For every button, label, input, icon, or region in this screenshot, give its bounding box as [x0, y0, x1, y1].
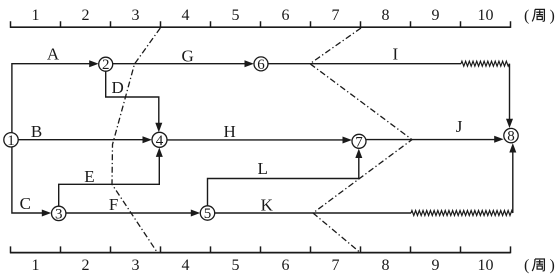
- svg-text:2: 2: [82, 257, 90, 274]
- wire I line node6 right with float wave: [268, 63, 461, 65]
- svg-text:4: 4: [156, 133, 164, 149]
- node 2: [99, 57, 113, 73]
- svg-text:A: A: [47, 44, 60, 63]
- wire E from node3 up over to node4 bottom: [59, 155, 160, 207]
- svg-text:3: 3: [132, 257, 140, 274]
- svg-text:H: H: [223, 122, 235, 141]
- svg-text:L: L: [258, 159, 268, 178]
- svg-text:5: 5: [204, 206, 212, 222]
- svg-text:6: 6: [282, 257, 290, 274]
- arrow F into node5: [191, 210, 200, 217]
- arrow H into node7: [343, 137, 352, 144]
- wire B node1 to node4: [18, 139, 145, 141]
- top ruler ticks: [11, 21, 511, 28]
- wire J node7 to node8: [366, 139, 497, 141]
- svg-text:8: 8: [382, 7, 390, 24]
- node 5: [200, 206, 214, 222]
- node 4: [152, 132, 167, 149]
- svg-text:2: 2: [102, 57, 110, 73]
- top ruler line: [10, 26, 511, 28]
- svg-text:2: 2: [82, 7, 90, 24]
- wire I drop into node 8: [509, 64, 511, 122]
- svg-text:C: C: [20, 194, 31, 213]
- arrow I into node8 top: [506, 119, 513, 128]
- wire K rise into node 8: [512, 150, 514, 213]
- wire G line node2 to node6: [113, 63, 247, 65]
- svg-text:G: G: [182, 47, 194, 66]
- svg-text:(: (: [524, 257, 529, 274]
- node 7: [352, 134, 366, 150]
- svg-text:(: (: [524, 8, 529, 25]
- svg-text:10: 10: [478, 7, 494, 24]
- ruler numbers bottom: [32, 257, 494, 274]
- svg-text:8: 8: [382, 257, 390, 274]
- node 1: [4, 133, 18, 149]
- arrow J into node8: [494, 136, 503, 143]
- svg-text:1: 1: [32, 257, 40, 274]
- arrow C into node3: [42, 210, 51, 217]
- svg-text:): ): [550, 257, 555, 274]
- wire F node3 to node5: [66, 212, 193, 214]
- wire H node4 to node7: [167, 139, 345, 141]
- svg-text:7: 7: [332, 257, 340, 274]
- front line right (week 7 check) dash-dot: [310, 28, 412, 252]
- svg-text:4: 4: [182, 7, 190, 24]
- svg-text:9: 9: [432, 257, 440, 274]
- svg-text:7: 7: [332, 7, 340, 24]
- wire A riser from node 1: [12, 64, 92, 133]
- ruler numbers top: [32, 7, 494, 24]
- front line left (week 3 check) dash-dot: [112, 28, 160, 252]
- svg-text:8: 8: [507, 129, 515, 145]
- svg-text:3: 3: [132, 7, 140, 24]
- node 6: [254, 57, 268, 73]
- wire D from node2 down to node4 top: [106, 71, 159, 125]
- svg-text:3: 3: [55, 206, 63, 222]
- svg-text:): ): [550, 8, 555, 25]
- node 3: [52, 206, 66, 222]
- svg-text:5: 5: [232, 257, 240, 274]
- wave K free float: [411, 211, 513, 216]
- wire K node5 right with float wave: [215, 212, 411, 214]
- svg-text:9: 9: [432, 7, 440, 24]
- wire L from node5 up over to node7 bottom: [208, 156, 359, 206]
- svg-text:1: 1: [7, 133, 15, 149]
- svg-text:I: I: [392, 45, 398, 64]
- svg-text:10: 10: [478, 257, 494, 274]
- svg-text:D: D: [112, 78, 124, 97]
- arrow D into node4 top: [155, 123, 162, 132]
- arrowheads: [42, 60, 517, 216]
- arrow E into node4 bottom: [156, 148, 163, 157]
- svg-text:6: 6: [282, 7, 290, 24]
- svg-text:B: B: [31, 122, 42, 141]
- unit label bottom (zhou): [524, 257, 555, 274]
- svg-text:1: 1: [32, 7, 40, 24]
- node 8: [504, 128, 518, 144]
- arrow A into node2: [89, 60, 98, 67]
- svg-text:F: F: [109, 195, 118, 214]
- arrow K into node8 bottom: [509, 143, 516, 152]
- wire C from node1 down to node3: [12, 147, 45, 213]
- arrow B into node4: [143, 136, 152, 143]
- bottom ruler line: [10, 252, 511, 254]
- wave I free float: [461, 61, 510, 66]
- unit label top (zhou): [524, 8, 555, 25]
- bottom ruler ticks: [11, 246, 511, 253]
- svg-text:J: J: [456, 117, 463, 136]
- svg-text:6: 6: [257, 57, 265, 73]
- svg-text:4: 4: [182, 257, 190, 274]
- arrow L into node7 bottom: [355, 149, 362, 158]
- svg-text:K: K: [261, 196, 274, 215]
- svg-text:E: E: [84, 167, 94, 186]
- svg-text:5: 5: [232, 7, 240, 24]
- svg-text:7: 7: [355, 134, 363, 150]
- arrow G into node6: [245, 60, 254, 67]
